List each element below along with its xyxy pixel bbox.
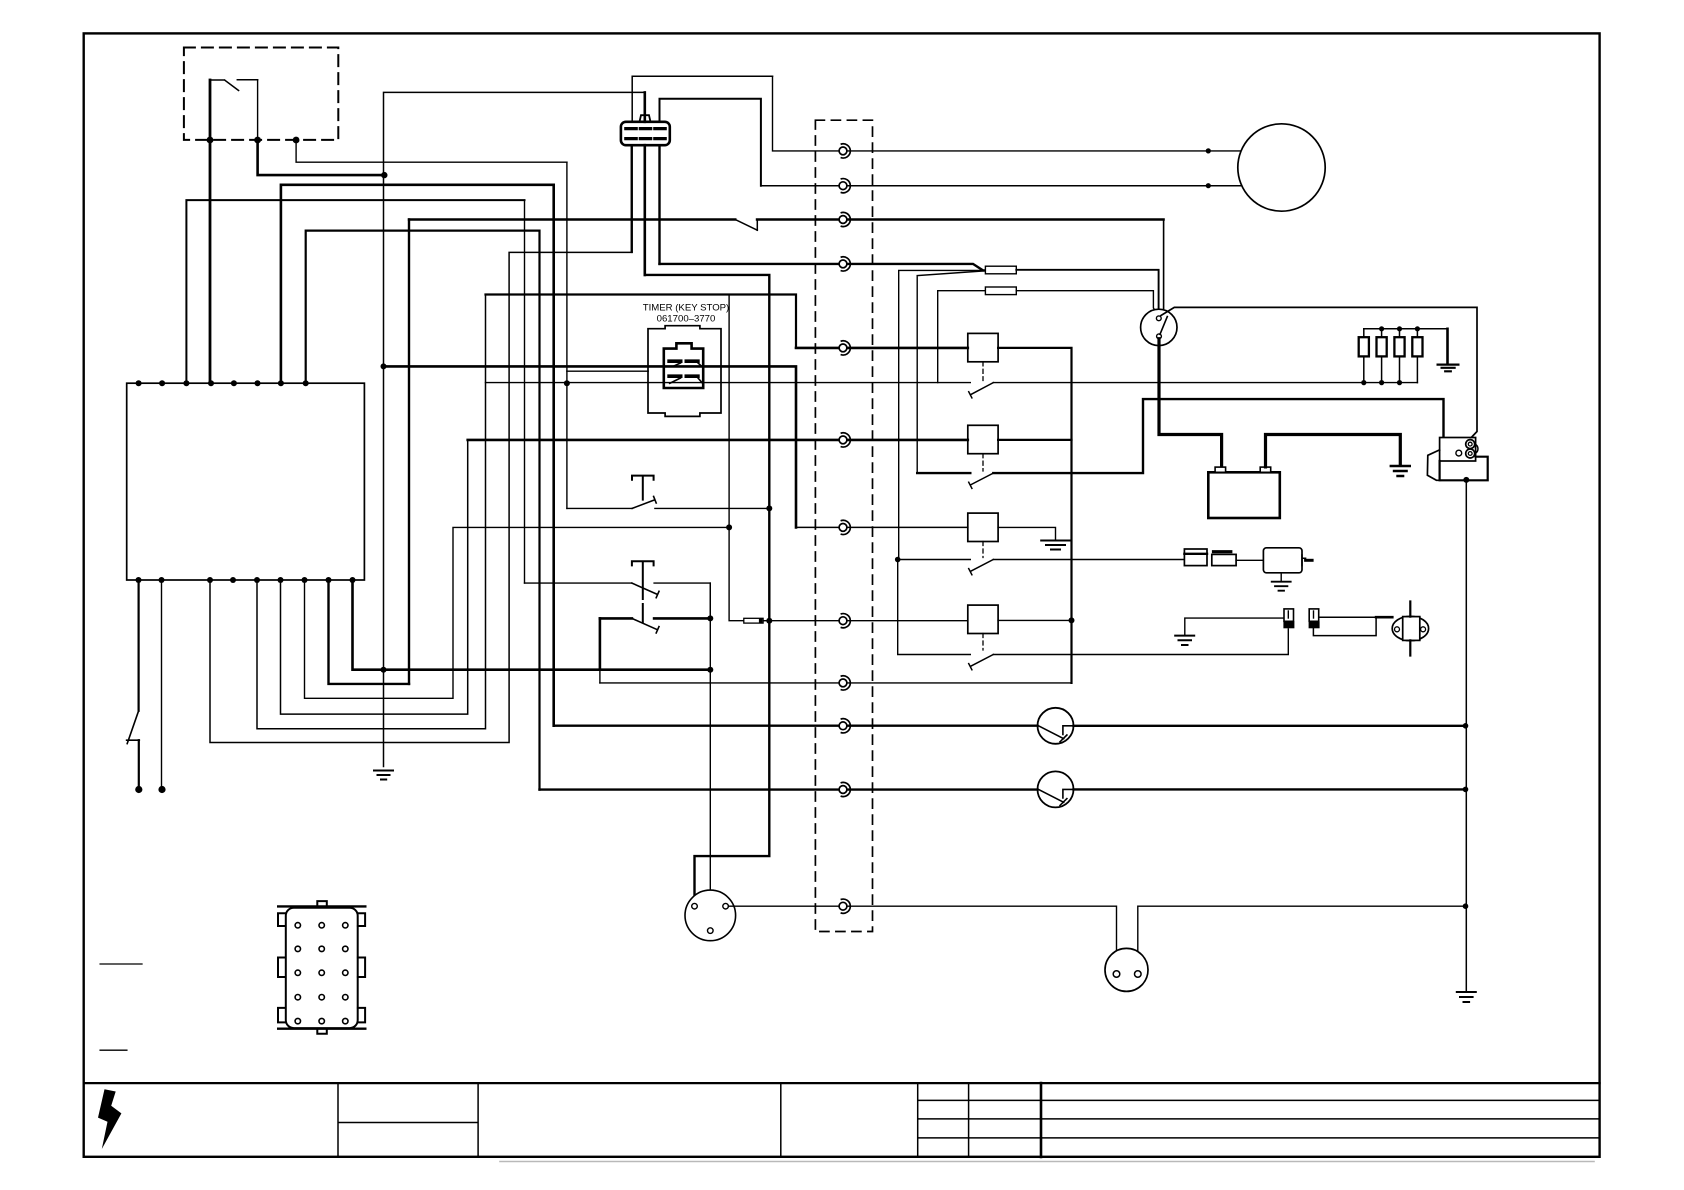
relay K2 contact blade [969,473,994,488]
node junction x729 y527 [726,524,732,530]
wire row E pin 257 to relay3 feed loop [257,295,486,729]
wire relay K3 contact row [898,559,1185,561]
magneto connector bump [640,115,651,122]
wire key box left lower [599,670,601,683]
wire row F pin 210 to connector pin1 [210,145,631,742]
wire riser x409 [408,220,410,684]
wire relay K1 coil out [998,348,1071,683]
wire S3 pole1 out [654,583,710,618]
reference mark 1 [100,963,142,965]
wire relay K4 coil out [998,619,1071,621]
node terminal dot right [158,786,165,793]
wire module bottom pin2 leg [161,580,163,790]
wire row C pin 304 to key area [305,527,730,698]
bulkhead pin 2 [839,179,850,193]
title block dividers left [338,1083,781,1157]
inline fuse F2 [985,287,1016,295]
reference mark 2 [100,1049,127,1051]
wire fuse F1 feed riser [899,270,986,558]
node kill junction y508 [766,505,772,511]
node terminal dot left [135,786,142,793]
timer outline [648,326,721,417]
wire connector pin3 lower [658,145,660,264]
shutoff connector A [1284,609,1294,621]
bulkhead pin 3 [839,212,850,226]
title block top line [84,1082,1600,1084]
starter solenoid box [1440,438,1476,462]
fuse bus lower y382 [486,382,1418,384]
relay K3 coil [968,513,998,541]
shutoff valve body [1403,617,1420,641]
shutoff connector B [1309,609,1319,621]
distributor terminal left [692,903,698,909]
relay K4 plunger link [982,634,984,651]
switch blade bottom left [127,711,140,744]
relay K4 contact blade [969,655,994,670]
relay K2 coil [968,425,998,453]
connector block pins [295,923,348,1024]
wire key box left side [599,618,602,669]
node dashed box pin C [293,137,300,144]
bulkhead pin 12 [839,899,850,913]
connector block top tab [317,901,327,906]
title block bold divider [1040,1083,1043,1157]
starter stud arc [1475,444,1478,453]
wire relay K4 feed row y621 [769,620,968,622]
wire relay K2 coil out [998,439,1071,441]
relay K3 plunger link [982,542,984,558]
wire kill switch B to magneto node [258,140,385,175]
wire module pin3 to key switch feed [186,200,524,383]
connector block bottom tab [317,1029,327,1034]
wire fuse F1 to key switch [1016,270,1158,316]
ground relay K3 [1041,541,1070,550]
wire y366 module kill to relay3 feed [384,366,797,527]
bulkhead pin 4 [839,257,850,271]
relay box (dashed) top-left [184,48,338,140]
node CB2 right junction [1463,787,1469,793]
connector block right tabs [358,913,365,1022]
node junction x710 y618 [707,615,713,621]
timer pin contacts [670,363,703,384]
connector block bottom plate [278,1027,365,1029]
wire lighting row y186 [761,185,1245,187]
wire connector pin3 upper [660,99,761,186]
bulkhead pin 8 [839,614,850,628]
wire charge row y264 [660,264,986,271]
wire module bottom switch leg [138,580,140,711]
lightning bolt logo [98,1089,121,1149]
node bus junction x567 y383 [564,380,570,386]
key start switch S3 plunger [632,561,654,622]
wire connector pin1 upper [632,76,772,122]
relay K1 coil [968,333,998,361]
wire stop row y219 with switch [409,218,1164,220]
fuel pump connector A bar [1184,553,1207,555]
wire vertical x729 [729,295,744,621]
timer pins [669,361,698,376]
wire relay2 feed row y440 [468,439,968,442]
wire y906 right segment [1138,906,1466,971]
node starter ground junction [1463,477,1469,483]
wire S2 feed [567,507,632,509]
node CB1 right junction [1463,723,1469,729]
wire breaker CB1 row [554,725,1466,727]
magneto connector body [621,122,670,145]
ignition switch blade [1160,317,1167,335]
node module top pins [136,380,309,386]
node junction x383 y670 [381,667,387,673]
node dot y151 [1206,148,1211,153]
wire distributor drop x710 [709,583,711,928]
ground battery [1391,466,1410,476]
timer connector inner [664,343,703,388]
wire battery negative to ground [1266,435,1401,467]
starter motor housing [1427,450,1440,480]
wire S1 right pole [257,80,259,140]
battery terminal positive [1215,467,1226,472]
wire breaker CB2 row [540,788,1466,791]
wire relay K2 contact row [917,399,1456,473]
bulkhead pin 11 [839,782,850,796]
connector block top plate [278,905,365,907]
wire S2 out to kill vertical [655,507,769,509]
node module bottom pins [136,577,356,583]
wire below blade to terminal [138,740,140,789]
hour meter circle [1238,124,1325,211]
wire kill path y275 [645,275,770,904]
bulkhead pin 9 [839,676,850,690]
wire kill switch C to key circuit [296,140,567,162]
fuel pump connector B [1212,554,1236,565]
wire S3 pole2 left thick [600,617,632,620]
svg-text:061700–3770: 061700–3770 [657,314,716,325]
shutoff valve stem [1409,602,1411,656]
relay K2 plunger link [982,454,984,471]
wire shutoff to valve [1376,616,1392,619]
relay1 contact blade [969,383,994,398]
starter solenoid small terminal [1456,450,1462,456]
battery terminal negative [1260,467,1271,472]
wire relay1 feed row y348 [796,347,968,350]
switch S3 pole2 blade [632,618,659,633]
wire S3 pole2 out thick [654,617,710,620]
node kill junction y621 [766,618,772,624]
magneto connector pins [626,129,665,139]
node junction x710 y669 [707,667,713,673]
shutoff valve bolt left [1395,627,1400,632]
connector block left tabs [278,913,285,1022]
wire connector pin2 through [643,92,646,275]
wire kill switch A to module [209,140,212,383]
ground shutoff [1175,636,1194,645]
wire fuse F1 second feed [917,271,985,473]
safety connector circle [1105,948,1148,991]
ground under magneto line [374,771,393,780]
switch S3 pole1 blade [632,583,659,598]
wire row D pin 280 to relay2 feed [281,440,468,714]
wire relay3 feed row y527 [796,526,968,528]
safety connector pin right [1135,971,1142,978]
shutoff valve oval [1392,616,1428,640]
node fuse bottom dots [1361,380,1402,385]
relay K1 plunger link [982,362,984,381]
ground fuse panel [1438,365,1459,372]
relay K4 coil [968,605,998,633]
ignition switch bottom terminal [1157,334,1162,339]
bulkhead pin 6 [839,433,850,447]
switch blade on y219 [735,220,757,231]
starter stud lower [1466,449,1475,458]
wire vertical feed x567 [566,162,568,508]
key switch pushbutton S2 plunger [632,476,654,500]
node y906 right junction [1463,903,1469,909]
title block revision table [918,1083,1600,1157]
inline fuse F1 [985,266,1016,274]
control module U1 [127,383,365,580]
node dot y186 [1206,183,1211,188]
shutoff connector A inner [1287,611,1289,618]
wire S1 left pole [209,80,212,140]
shutoff connector A base [1283,621,1294,628]
circuit breaker CB2 [1038,771,1074,807]
fuel pump nose [1302,555,1306,566]
inline connector pill tip [759,619,763,623]
ignition switch circle [1141,309,1177,345]
shutoff connector B inner [1313,611,1315,618]
wire relay1 contact riser to fuse2 [938,291,986,383]
fuel pump connector A [1184,549,1207,566]
node fuse top dots [1379,326,1420,331]
fuse panel F3-F6 [1359,329,1448,383]
breaker CB1 element [1039,726,1074,742]
wire distributor out row y906 [728,906,1116,971]
wire stop row drop to key switch [1160,220,1163,317]
wire module pin7 to breaker1 row [281,185,554,726]
bulkhead pin 10 [839,719,850,733]
wire pill to kill vertical [763,620,769,622]
node dashed box pin B [254,137,261,144]
wire connector pin1 lower [631,145,633,252]
battery [1208,472,1280,518]
fuel pump connector B cap [1214,550,1231,553]
node junction at x384 y175 [381,172,387,178]
switch S2 blade [632,496,656,508]
connector ring symbols on bulkhead [839,144,850,913]
wire fuel pump ground lead [1280,573,1282,581]
switch S1 inside dashed box [210,80,258,91]
fuel pump nose stub [1306,559,1313,562]
inline connector pill [744,618,763,623]
fuel shutoff coil box [1313,617,1376,635]
wire row A pin 352 thick to key box [353,580,711,670]
wire module pin8 to breaker2 row [306,231,540,790]
starter body box [1440,457,1488,481]
wire lighting row y151 [773,76,1240,151]
ignition switch top terminal [1156,316,1161,321]
bulkhead pin 7 [839,520,850,534]
shutoff valve bolt right [1421,627,1426,632]
wire magneto top run [384,92,645,766]
node junction x898 y559 [895,557,901,563]
bulkhead pin 5 [839,341,850,355]
starter stud upper [1466,440,1475,449]
node dashed box pin A [207,137,214,144]
main harness connector block [286,908,358,1028]
ground fuel pump [1272,582,1291,591]
bulkhead connector dashed box [815,120,872,931]
distributor terminal right [723,903,729,909]
distributor terminal bottom [708,928,714,934]
wire ignition feed row y683 [600,682,1072,684]
shutoff connector B base [1309,621,1320,628]
wire relay K4 contact row [898,559,1289,655]
wire fuse F2 to key switch [1016,291,1157,316]
relay K3 contact blade [969,560,994,575]
wire starter to main ground [1465,480,1467,991]
circuit breaker CB1 [1038,708,1074,744]
safety connector pin left [1113,971,1120,978]
node junction x383 y366 [381,363,387,369]
wire connector B to pump [1236,559,1263,561]
wire shutoff ground feed [1185,618,1288,635]
wire S3 pole1 feed [525,582,632,584]
wire branch to timer pin [567,370,648,372]
distributor circle [685,890,736,941]
wire ignition to starter y307 [1161,307,1477,438]
wire relay K3 coil to ground [998,527,1055,539]
wire ignition battery feed [1159,339,1222,467]
node relay K4 out junction [1069,617,1075,623]
faint scan line under title block [500,1161,1594,1163]
svg-text:TIMER (KEY STOP): TIMER (KEY STOP) [643,303,730,314]
wire row B pin 328 to x409 riser [329,580,410,684]
bulkhead pin 1 [839,144,850,158]
ground main right [1457,992,1476,1002]
fuel pump body [1263,548,1302,573]
breaker CB2 element [1039,789,1074,805]
